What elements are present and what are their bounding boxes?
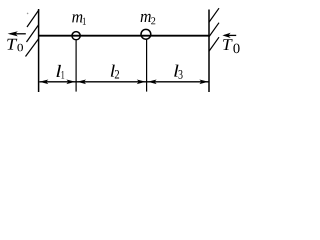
- m2 extension line: [146, 39, 148, 91]
- dim arrowhead l1 right: [66, 80, 75, 85]
- T0 arrow left: [10, 33, 26, 35]
- label m1 sub1: [83, 18, 86, 25]
- dim arrowhead l3 left: [148, 80, 157, 85]
- label l2 sub2: [115, 70, 119, 79]
- label l3 sub3: [179, 70, 183, 79]
- label l2 l: [111, 65, 115, 77]
- label m2 m: [141, 14, 151, 22]
- dim arrowhead l3 right: [199, 80, 208, 85]
- label T0-right T: [223, 39, 233, 50]
- label l3 l: [174, 65, 178, 77]
- m1 extension line: [75, 40, 77, 91]
- label m1 m: [72, 14, 82, 22]
- right wall line: [208, 10, 210, 93]
- label T0-right 0: [233, 44, 239, 54]
- mass m2 string pass-through: [141, 35, 151, 37]
- label T0-left 0: [17, 44, 23, 52]
- left wall hatch 2: [27, 25, 39, 43]
- mass m1 circle: [72, 32, 80, 40]
- label T0-left T: [7, 39, 17, 50]
- speck: [27, 13, 29, 15]
- dim arrowhead l2 left: [77, 80, 86, 85]
- left wall hatch 1: [27, 10, 39, 27]
- right wall hatch 1: [209, 8, 219, 22]
- dim arrowhead l2 right: [137, 80, 146, 85]
- left wall hatch 3: [26, 39, 39, 57]
- string / wire: [39, 35, 209, 37]
- mass m1 string pass-through: [72, 35, 80, 37]
- label l1 sub1: [61, 71, 64, 79]
- label m2 sub2: [151, 17, 155, 24]
- label l1 l: [57, 65, 62, 77]
- mass m2 circle: [141, 29, 151, 39]
- left wall line: [38, 9, 40, 92]
- dim arrowhead l1 left: [39, 80, 48, 85]
- right wall hatch 2: [209, 23, 219, 37]
- dimension line: [40, 81, 209, 83]
- right wall hatch 3: [209, 37, 219, 51]
- T0 arrow right: [225, 34, 237, 36]
